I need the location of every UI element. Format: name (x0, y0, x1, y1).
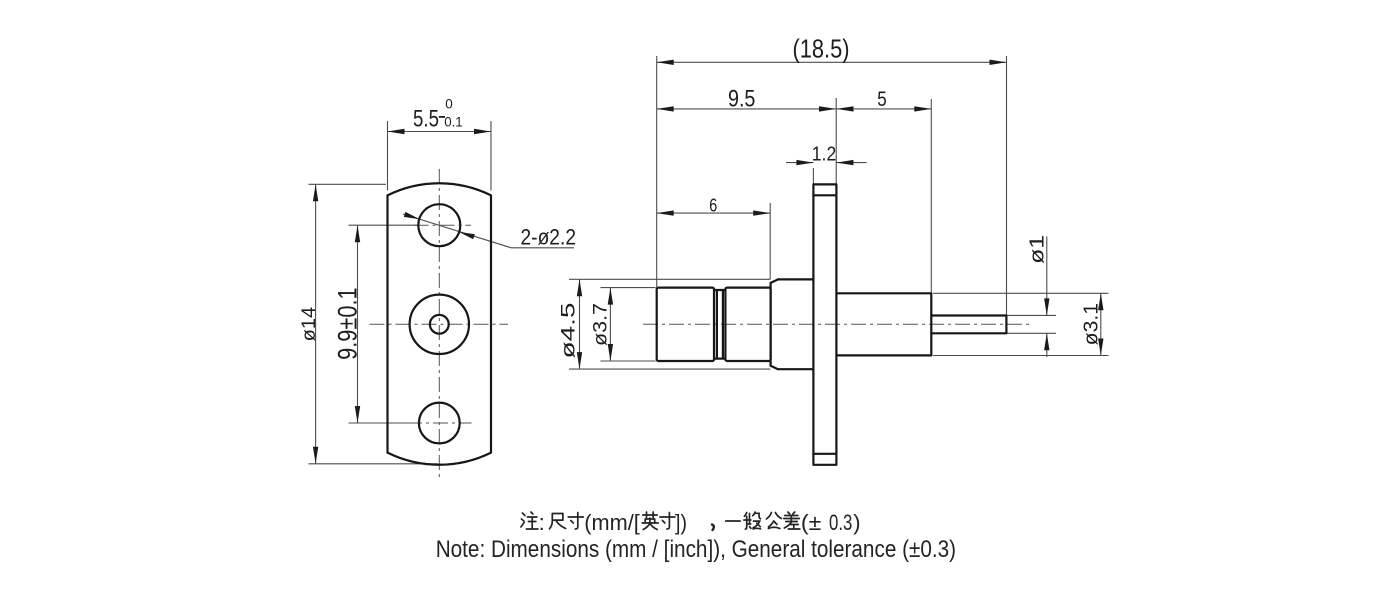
svg-text:9.5: 9.5 (728, 85, 756, 112)
svg-text:(±: (± (801, 510, 821, 535)
svg-text:ø4.5: ø4.5 (559, 303, 580, 359)
svg-text:ø3.1: ø3.1 (1080, 303, 1102, 345)
svg-text:): ) (853, 510, 860, 535)
svg-text:]): ]) (675, 510, 687, 535)
svg-text:ø3.7: ø3.7 (591, 303, 612, 346)
svg-text:(mm/[: (mm/[ (584, 510, 640, 535)
svg-text:Note: Dimensions (mm / [inch]): Note: Dimensions (mm / [inch]), General … (436, 536, 956, 563)
svg-text:6: 6 (709, 195, 717, 216)
svg-text:0.3: 0.3 (829, 510, 852, 535)
svg-text:(18.5): (18.5) (793, 34, 850, 64)
svg-text:2-ø2.2: 2-ø2.2 (521, 225, 577, 250)
svg-text:0.1: 0.1 (444, 114, 463, 129)
svg-text:9.9±0.1: 9.9±0.1 (333, 287, 363, 360)
svg-text:ø1: ø1 (1027, 235, 1049, 264)
svg-text:5: 5 (877, 88, 887, 111)
svg-text:5.5: 5.5 (413, 105, 439, 132)
svg-text::: : (539, 510, 545, 535)
svg-text:1.2: 1.2 (812, 142, 837, 165)
svg-text:0: 0 (445, 97, 453, 112)
svg-text:ø14: ø14 (299, 306, 320, 341)
